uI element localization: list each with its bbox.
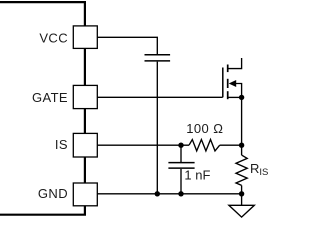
IC outline (0, 2, 85, 215)
junction resistor right node (239, 143, 244, 148)
resistor RIS (236, 145, 247, 194)
wire GND to ground node (97, 193, 241, 195)
wire 1nF top stub (180, 145, 182, 162)
junction source node (239, 95, 244, 100)
ground (229, 205, 254, 217)
wire GATE to MOSFET gate (97, 96, 222, 98)
svg-text:VCC: VCC (39, 31, 68, 46)
wire RIS to ground (241, 194, 243, 206)
pin box GATE (73, 85, 97, 108)
wire source node to sense node (241, 97, 243, 145)
pin box GND (73, 183, 97, 206)
svg-text:GATE: GATE (32, 90, 68, 105)
wire VCC to capacitor C1 (97, 37, 157, 54)
svg-text:100 Ω: 100 Ω (186, 121, 223, 136)
capacitor C1 (145, 55, 171, 61)
svg-text:IS: IS (55, 137, 68, 152)
resistor R1 100Ω (189, 140, 220, 151)
junction ground rail at C1 (155, 191, 160, 196)
capacitor C2 1nF (168, 163, 194, 169)
svg-text:1 nF: 1 nF (184, 167, 210, 182)
svg-text:GND: GND (38, 186, 68, 201)
svg-text:RIS: RIS (250, 161, 268, 178)
wire IS to resistor (97, 144, 189, 146)
junction 1nF top node (178, 143, 183, 148)
junction ground rail at 1nF (178, 191, 183, 196)
pin box IS (73, 133, 97, 157)
transistor Q1 (223, 58, 242, 99)
pin box VCC (73, 26, 97, 49)
junction ground rail at RIS (239, 191, 244, 196)
wire 1nF bottom stub (180, 169, 182, 194)
wire resistor to source node (220, 144, 242, 146)
wire C1 to ground rail (156, 62, 158, 194)
